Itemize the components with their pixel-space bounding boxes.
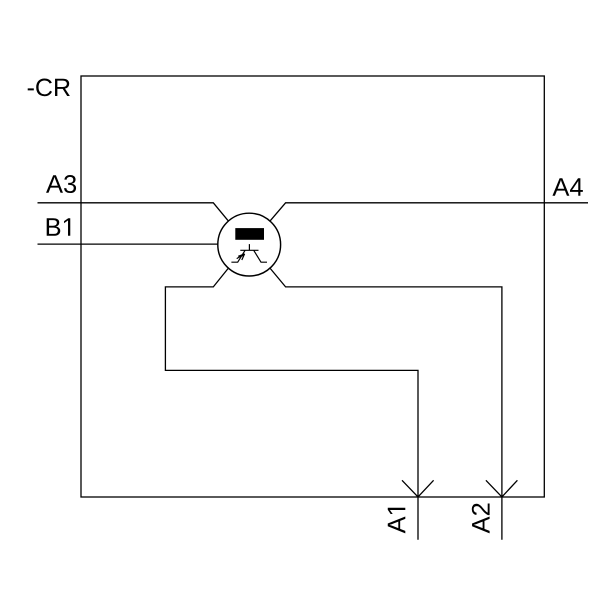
arrow terminal A2: [486, 480, 518, 497]
thermistor element (filled rectangle): [235, 228, 264, 240]
label -CR: [28, 79, 70, 97]
temperature trip symbol: [231, 244, 267, 262]
wire A4: [270, 203, 588, 221]
label A1: [388, 508, 406, 534]
wire from circle to terminal A1: [165, 269, 418, 540]
terminal label A3: [46, 175, 76, 193]
thermistor relay symbol circle U1: [218, 213, 281, 276]
label A2: [472, 503, 490, 533]
device outline box -CR: [81, 76, 544, 497]
actuation arrow: [237, 254, 245, 260]
arrow terminal A1: [402, 480, 434, 497]
wire A3: [38, 203, 229, 221]
wire from circle to terminal A2: [270, 269, 502, 540]
terminal label A4: [552, 178, 582, 196]
wire B1: [38, 243, 218, 245]
terminal label B1: [47, 218, 71, 236]
